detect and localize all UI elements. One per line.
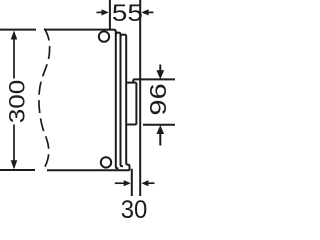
svg-text:96: 96 bbox=[145, 83, 171, 115]
svg-text:300: 300 bbox=[5, 80, 30, 124]
svg-text:55: 55 bbox=[112, 0, 143, 27]
svg-text:30: 30 bbox=[121, 196, 148, 221]
